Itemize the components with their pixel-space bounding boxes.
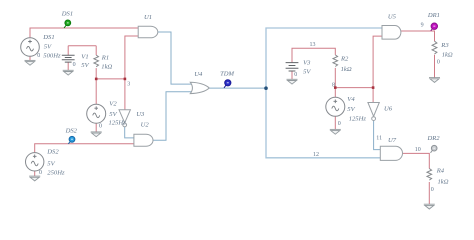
svg-text:0: 0 (431, 187, 434, 193)
svg-text:13: 13 (310, 42, 316, 48)
svg-text:U4: U4 (194, 71, 203, 78)
svg-text:DR1: DR1 (427, 12, 440, 19)
svg-text:0: 0 (73, 62, 76, 68)
svg-text:V4: V4 (347, 96, 355, 103)
svg-text:125Hz: 125Hz (349, 115, 367, 122)
svg-text:U5: U5 (388, 14, 397, 21)
svg-text:3: 3 (127, 82, 130, 88)
svg-text:5V: 5V (47, 161, 55, 168)
svg-text:R4: R4 (436, 168, 445, 175)
svg-text:1kΩ: 1kΩ (438, 179, 449, 186)
svg-text:8: 8 (332, 82, 335, 88)
svg-text:V3: V3 (303, 59, 311, 66)
svg-text:1kΩ: 1kΩ (341, 66, 352, 73)
svg-text:U1: U1 (144, 14, 152, 21)
svg-text:5V: 5V (81, 62, 89, 69)
svg-text:DS1: DS1 (61, 11, 73, 18)
svg-text:1kΩ: 1kΩ (442, 52, 453, 59)
svg-text:5V: 5V (44, 44, 52, 51)
svg-text:U7: U7 (388, 137, 397, 144)
svg-text:DS1: DS1 (42, 34, 54, 41)
svg-text:V1: V1 (81, 54, 88, 61)
svg-text:U3: U3 (136, 111, 145, 118)
svg-text:125Hz: 125Hz (109, 120, 127, 127)
svg-text:V2: V2 (109, 100, 117, 107)
svg-text:10: 10 (415, 147, 421, 153)
svg-text:250Hz: 250Hz (47, 169, 65, 176)
svg-text:5V: 5V (109, 111, 117, 118)
svg-text:DS2: DS2 (65, 127, 78, 134)
svg-text:1kΩ: 1kΩ (101, 64, 112, 71)
svg-text:9: 9 (421, 23, 424, 29)
svg-text:0: 0 (437, 59, 440, 65)
svg-text:0: 0 (39, 170, 42, 176)
svg-text:R1: R1 (101, 54, 109, 61)
svg-text:DS2: DS2 (46, 149, 59, 156)
svg-text:U6: U6 (384, 105, 393, 112)
svg-text:0: 0 (37, 53, 40, 59)
svg-text:DR2: DR2 (427, 135, 441, 142)
svg-text:0: 0 (338, 121, 341, 127)
svg-text:R2: R2 (340, 55, 349, 62)
svg-text:500Hz: 500Hz (43, 53, 61, 60)
svg-text:R3: R3 (440, 42, 449, 49)
svg-text:5V: 5V (347, 106, 355, 113)
svg-text:11: 11 (376, 136, 382, 142)
svg-text:0: 0 (294, 72, 297, 78)
svg-text:TDM: TDM (220, 70, 234, 77)
svg-text:5V: 5V (303, 68, 311, 75)
svg-text:0: 0 (99, 124, 102, 130)
svg-text:U2: U2 (141, 121, 150, 128)
svg-text:12: 12 (313, 152, 319, 158)
